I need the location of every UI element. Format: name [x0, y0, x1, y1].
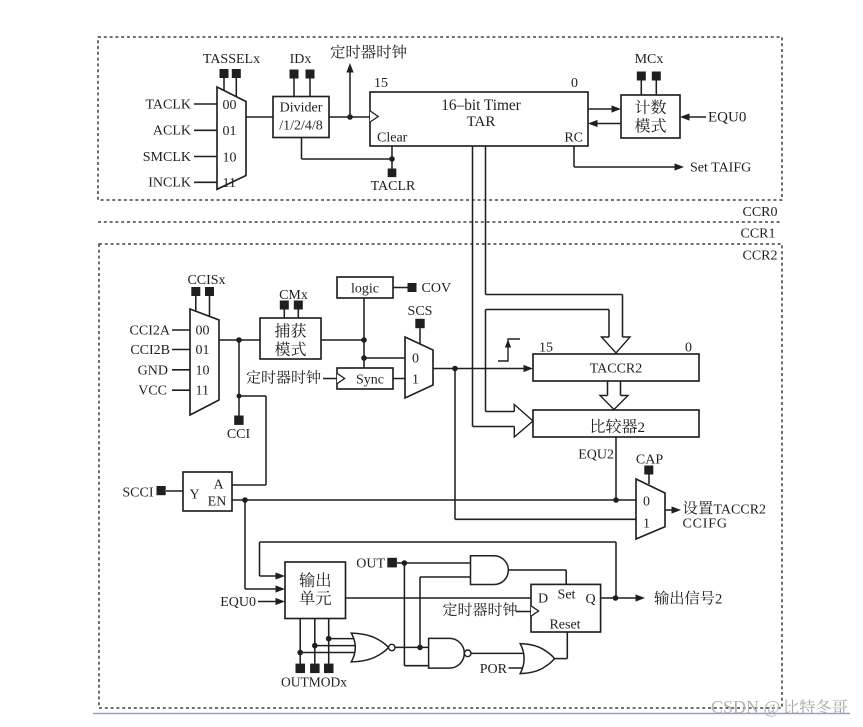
- arrow timer clock up: [346, 63, 353, 73]
- label timer-clock at Sync (chinese): [247, 370, 321, 384]
- label SCS: [408, 304, 433, 319]
- label CAP: [636, 453, 663, 468]
- svg-text:IDx: IDx: [290, 52, 312, 67]
- label set TACCR2 CCIFG line1 (chinese+latin): [683, 501, 766, 518]
- wire timer clock up: [349, 70, 351, 117]
- svg-text:EQU0: EQU0: [708, 110, 746, 126]
- label GND: [138, 363, 168, 378]
- label ACLK: [153, 124, 191, 139]
- wire NOR input 3: [300, 652, 360, 654]
- control bit square OUTMOD c: [324, 664, 334, 674]
- label CCIFG line2: [683, 517, 728, 532]
- svg-text:CCR0: CCR0: [742, 205, 777, 220]
- wire OR output to Reset: [555, 632, 568, 659]
- svg-text:CCI2A: CCI2A: [130, 323, 171, 338]
- svg-text:ACLK: ACLK: [153, 124, 191, 139]
- label IDx: [290, 52, 312, 67]
- pin label 15 (TACCR2): [539, 341, 553, 356]
- label timer-clock at flip-flop (chinese): [443, 602, 517, 616]
- svg-text:TACCR2: TACCR2: [714, 503, 767, 518]
- svg-text:CSDN @: CSDN @: [711, 697, 780, 717]
- arrow Set TAIFG: [675, 163, 685, 170]
- junction SCS output branch: [452, 366, 458, 372]
- svg-text:CCR2: CCR2: [742, 249, 777, 264]
- label CCI: [227, 427, 251, 442]
- label EQU0 (top): [708, 110, 746, 126]
- wire MCx bit0 stem: [655, 81, 657, 96]
- control bit square IDx bit1: [290, 70, 299, 79]
- wire timer clock to flip-flop: [516, 611, 531, 613]
- wire Q feedback left drop: [259, 542, 261, 576]
- wire CCI2A input: [172, 329, 190, 331]
- junction EQU2 node: [613, 497, 619, 503]
- control bit square MCx bit1: [637, 72, 646, 81]
- junction NOR output node: [417, 645, 423, 651]
- symbol rising-edge glyph: [498, 339, 520, 361]
- pin label 01 (mux U1): [223, 124, 237, 139]
- wire CCI2B input: [172, 349, 190, 351]
- junction OUTMOD a: [297, 650, 303, 656]
- frame: CCR0 dashed separator: [98, 221, 782, 223]
- block U7 logic: [337, 277, 393, 298]
- block U3 16-bit Timer TAR: [370, 92, 588, 146]
- bus branch to TACCR2 bottom edge: [486, 310, 610, 338]
- wire OUTMOD stem c: [328, 619, 330, 664]
- svg-text:MCx: MCx: [635, 52, 664, 67]
- mux U5 CCIS capture input select: [190, 309, 219, 415]
- label OUTMODx: [281, 675, 347, 690]
- pin label 1 (mux U12): [643, 517, 650, 532]
- label timer-clock (chinese): [331, 45, 407, 59]
- svg-text:TACLK: TACLK: [145, 97, 191, 112]
- wire divider output to TAR: [329, 116, 370, 118]
- wire OUT down to NAND: [404, 563, 428, 666]
- control bit square TACLR: [388, 169, 397, 178]
- bus TAR output right edge upper: [485, 146, 487, 295]
- block U11 latch Y/A/EN: [183, 472, 232, 511]
- label EQU0 (bottom): [220, 595, 256, 610]
- wire INCLK input: [194, 181, 217, 183]
- label TACLK: [145, 97, 191, 112]
- control bit square SCCI: [157, 486, 166, 495]
- wire OUT to AND gate: [397, 562, 471, 564]
- arrow EQU0 into count-mode: [680, 113, 690, 120]
- block U15 D flip-flop: [531, 584, 601, 632]
- wire CCISx bit1 stem: [195, 296, 197, 312]
- svg-text:D: D: [538, 592, 548, 607]
- label SCCI: [122, 486, 153, 501]
- pin label 0 (TACCR2): [685, 341, 692, 356]
- svg-text:Clear: Clear: [377, 131, 408, 146]
- wire CMx bit0 stem: [297, 310, 299, 319]
- control bit square SCS: [415, 319, 424, 328]
- control bit square CCISx bit0: [205, 287, 214, 296]
- label TASSELx: [203, 52, 260, 67]
- wire EQU0 to count-mode: [683, 116, 706, 118]
- control bit square IDx bit0: [306, 70, 315, 79]
- pin label 10 (mux U5): [196, 363, 210, 378]
- svg-text:/1/2/4/8: /1/2/4/8: [279, 119, 323, 134]
- arrow capture into TACCR2: [524, 365, 534, 372]
- control bit square CCISx bit1: [191, 287, 200, 296]
- mux U8 SCS sync select: [405, 337, 433, 398]
- svg-text:15: 15: [374, 76, 388, 91]
- watermark bittewinter (chinese): [785, 699, 847, 714]
- wire RC to Set TAIFG: [574, 146, 681, 167]
- svg-text:11: 11: [223, 176, 236, 191]
- wire Q feedback top: [260, 541, 617, 543]
- clock triangle on Sync: [337, 373, 345, 383]
- wire NAND output: [471, 652, 527, 654]
- junction OUTMOD b: [312, 643, 318, 649]
- wire capture-mode output: [321, 339, 364, 341]
- svg-text:01: 01: [223, 124, 237, 139]
- svg-text:Set: Set: [558, 588, 576, 603]
- svg-text:A: A: [213, 478, 224, 493]
- wire timer clock to Sync: [323, 378, 337, 380]
- svg-text:CCI2B: CCI2B: [130, 343, 170, 358]
- label COV: [422, 281, 452, 296]
- arrow into TAR RC: [588, 120, 598, 127]
- wire latch branch down: [244, 500, 246, 589]
- svg-text:TAR: TAR: [467, 114, 496, 130]
- pin label 00 (mux U1): [223, 98, 237, 113]
- label CMx: [279, 288, 308, 303]
- gate U14 AND: [471, 556, 509, 585]
- svg-text:TASSELx: TASSELx: [203, 52, 260, 67]
- block U6 capture-mode (chinese): [260, 318, 321, 359]
- label EQU2: [578, 448, 614, 463]
- wire SCS mux output: [433, 368, 530, 370]
- wire TASSELx bit0 stem: [235, 78, 237, 97]
- wire latch output long line to CAP mux 0: [232, 499, 636, 501]
- arrow EQU0 into output-unit: [276, 598, 286, 605]
- pin label 1 (mux U8): [412, 373, 419, 388]
- svg-text:10: 10: [196, 363, 210, 378]
- wire output-unit to D input: [346, 597, 532, 599]
- junction CCI node: [236, 337, 242, 343]
- junction capture/logic: [361, 337, 367, 343]
- svg-text:1: 1: [412, 373, 419, 388]
- svg-text:CCIFG: CCIFG: [683, 517, 728, 532]
- svg-text:0: 0: [412, 352, 419, 367]
- svg-text:10: 10: [223, 150, 237, 165]
- control bit square MCx bit0: [652, 72, 661, 81]
- svg-text:Q: Q: [585, 592, 595, 607]
- svg-text:EQU0: EQU0: [220, 595, 256, 610]
- clock input triangle on TAR: [370, 111, 378, 122]
- pin label RC: [564, 131, 583, 146]
- svg-text:CCI: CCI: [227, 427, 251, 442]
- label CCR2: [742, 249, 777, 264]
- wire logic to COV: [393, 287, 408, 289]
- pin label 11 (mux U5): [196, 384, 209, 399]
- svg-text:SMCLK: SMCLK: [143, 150, 191, 165]
- wire mux U1 output to divider: [246, 116, 273, 118]
- svg-text:EQU2: EQU2: [578, 448, 614, 463]
- clock triangle on flip-flop: [531, 606, 539, 616]
- wire TAR to count-mode: [588, 108, 618, 110]
- pin label 01 (mux U5): [196, 343, 210, 358]
- svg-text:15: 15: [539, 341, 553, 356]
- junction Q node: [613, 595, 619, 601]
- wire divider reset path: [302, 138, 393, 160]
- wire CAP mux output: [665, 509, 678, 511]
- block U13 output-unit (chinese): [285, 562, 346, 619]
- svg-text:OUTMODx: OUTMODx: [281, 675, 347, 690]
- wire to CAP mux input 1: [455, 518, 636, 520]
- svg-text:POR: POR: [480, 662, 508, 677]
- gate U16 NOR: [351, 633, 395, 662]
- wire NOR input 1: [329, 638, 360, 640]
- svg-text:TACCR2: TACCR2: [590, 362, 643, 377]
- wire OUTMOD stem b: [314, 619, 316, 664]
- wire into output-unit input 2: [245, 588, 281, 590]
- label CCISx: [187, 273, 225, 288]
- svg-text:Set TAIFG: Set TAIFG: [690, 161, 751, 176]
- wire into output-unit input 1: [260, 575, 282, 577]
- svg-text:Reset: Reset: [549, 618, 580, 633]
- decor blue underline: [93, 713, 850, 715]
- svg-text:Sync: Sync: [356, 373, 384, 388]
- svg-text:INCLK: INCLK: [148, 176, 191, 191]
- label VCC: [138, 383, 167, 398]
- pin label 0 (mux U8): [412, 352, 419, 367]
- svg-text:1: 1: [643, 517, 650, 532]
- label output-signal-2 (chinese+latin): [654, 590, 722, 607]
- arrow output signal2: [636, 594, 646, 601]
- block U10 comparator2 (chinese): [533, 410, 699, 437]
- arrow into count-mode: [612, 105, 622, 112]
- wire CAP stem: [648, 475, 650, 485]
- svg-text:OUT: OUT: [356, 557, 385, 572]
- label Set TAIFG: [690, 161, 751, 176]
- control bit square OUT: [387, 558, 397, 568]
- wire logic down to Sync: [363, 298, 365, 368]
- label SMCLK: [143, 150, 191, 165]
- control bit square OUTMOD a: [296, 664, 306, 674]
- svg-text:Y: Y: [189, 488, 199, 503]
- wire NOR input 2: [315, 645, 360, 647]
- bus TAR output right edge lower: [486, 310, 515, 412]
- block U9 Sync: [337, 368, 393, 389]
- svg-text:TACLR: TACLR: [371, 179, 416, 194]
- control bit square CAP: [644, 466, 653, 475]
- wire IDx bit0 stem: [309, 79, 311, 97]
- wire count-mode to TAR: [591, 123, 621, 125]
- svg-text:01: 01: [196, 343, 210, 358]
- label INCLK: [148, 176, 191, 191]
- junction TACLR node: [389, 156, 395, 162]
- control bit square CMx bit0: [294, 301, 303, 310]
- pin label 0 (mux U12): [643, 495, 650, 510]
- svg-text:SCCI: SCCI: [122, 486, 153, 501]
- svg-text:RC: RC: [564, 131, 583, 146]
- wire IDx bit1 stem: [293, 79, 295, 97]
- arrow into output-unit input 1: [276, 572, 286, 579]
- svg-text:0: 0: [643, 495, 650, 510]
- svg-text:00: 00: [196, 324, 210, 339]
- mux U1 TASSELx clock-source select: [217, 87, 246, 189]
- arrow CCIFG output: [672, 506, 682, 513]
- label CCR0: [742, 205, 777, 220]
- bus TAR output left edge: [473, 146, 515, 427]
- wire Clear stem: [391, 146, 393, 169]
- frame: top dashed box (timer block): [98, 37, 782, 200]
- svg-text:16–bit Timer: 16–bit Timer: [441, 97, 520, 114]
- pin label 15 (TAR msb): [374, 76, 388, 91]
- wire SCCI input: [166, 490, 183, 492]
- block U4 count-mode (chinese): [621, 95, 680, 138]
- wire CCI to latch A input: [232, 396, 266, 485]
- pin label 00 (mux U5): [196, 324, 210, 339]
- wire POR input: [509, 667, 527, 669]
- wire OUTMOD stem a: [299, 619, 301, 664]
- wire NOR branch up to AND input: [420, 577, 471, 647]
- frame: CCR2 dashed box: [99, 244, 782, 708]
- wire EQU0 into output-unit: [258, 601, 281, 603]
- control bit square CMx bit1: [280, 301, 289, 310]
- label TACLR: [371, 179, 416, 194]
- control bit square TASSELx bit0: [232, 69, 241, 78]
- svg-text:2: 2: [715, 592, 722, 608]
- wire SCS stem: [419, 328, 421, 344]
- svg-text:CCISx: CCISx: [187, 273, 225, 288]
- wire mux U5 output to capture-mode: [219, 339, 260, 341]
- wire capture to SCS mux 0: [364, 357, 405, 359]
- junction OUT node: [402, 560, 408, 566]
- svg-text:EN: EN: [208, 495, 227, 510]
- wire SCS branch down: [454, 369, 456, 520]
- label MCx: [635, 52, 664, 67]
- bus hollow arrowhead into comparator2: [514, 405, 533, 438]
- junction capture to SCS mux: [361, 355, 367, 361]
- block U2 Divider /1/2/4/8: [273, 97, 329, 138]
- gate U17 NAND: [429, 638, 471, 668]
- svg-text:CAP: CAP: [636, 453, 663, 468]
- wire EQU2 down: [615, 437, 617, 500]
- svg-text:COV: COV: [422, 281, 452, 296]
- svg-text:logic: logic: [351, 282, 379, 297]
- wire CMx bit1 stem: [283, 310, 285, 319]
- wire TASSELx bit1 stem: [223, 78, 225, 91]
- pin label 10 (mux U1): [223, 150, 237, 165]
- svg-text:SCS: SCS: [408, 304, 433, 319]
- bus TACCR2 to comparator2: [600, 381, 628, 410]
- svg-text:11: 11: [196, 384, 209, 399]
- label CCI2A: [130, 323, 171, 338]
- control bit square COV: [408, 283, 417, 292]
- control bit square CCI: [234, 416, 243, 425]
- bus branch to TACCR2 top edge: [486, 295, 623, 338]
- svg-text:Divider: Divider: [280, 101, 323, 116]
- label OUT: [356, 557, 385, 572]
- mux U12 CAP select: [636, 479, 665, 539]
- pin label Clear: [377, 131, 408, 146]
- wire AND output to Set: [508, 570, 566, 584]
- wire MCx bit1 stem: [640, 81, 642, 96]
- wire Q feedback right drop: [615, 542, 617, 598]
- label CCR1: [740, 227, 775, 242]
- wire Sync output to mux 1: [393, 378, 405, 380]
- wire ACLK input: [194, 129, 217, 131]
- junction CCI to latch branch: [237, 394, 242, 399]
- junction timer-clock node: [347, 114, 353, 120]
- wire GND input: [172, 369, 190, 371]
- control bit square TASSELx bit1: [220, 69, 229, 78]
- svg-text:GND: GND: [138, 363, 168, 378]
- pin label 0 (TAR lsb): [571, 76, 578, 91]
- wire SMCLK input: [194, 156, 217, 158]
- wire VCC input: [172, 389, 190, 391]
- svg-text:00: 00: [223, 98, 237, 113]
- svg-text:2: 2: [638, 420, 646, 436]
- wire Q output: [601, 597, 637, 599]
- gate U18 OR: [520, 644, 554, 674]
- junction OUTMOD c: [326, 636, 332, 642]
- pin label 11 (mux U1): [223, 176, 236, 191]
- wire CCI drop: [238, 340, 240, 416]
- label CCI2B: [130, 343, 170, 358]
- control bit square OUTMOD b: [310, 664, 320, 674]
- junction latch output branch: [242, 497, 248, 503]
- svg-text:0: 0: [571, 76, 578, 91]
- svg-text:0: 0: [685, 341, 692, 356]
- label POR: [480, 662, 508, 677]
- watermark CSDN (latin): [711, 697, 780, 717]
- register TACCR2: [533, 354, 699, 381]
- arrow into output-unit input 2: [276, 585, 286, 592]
- wire CCISx bit0 stem: [209, 296, 211, 317]
- svg-text:VCC: VCC: [138, 383, 167, 398]
- svg-text:CCR1: CCR1: [740, 227, 775, 242]
- wire TACLK input: [194, 103, 217, 105]
- wire NOR output: [395, 646, 429, 648]
- bus hollow arrowhead into TACCR2: [602, 337, 631, 353]
